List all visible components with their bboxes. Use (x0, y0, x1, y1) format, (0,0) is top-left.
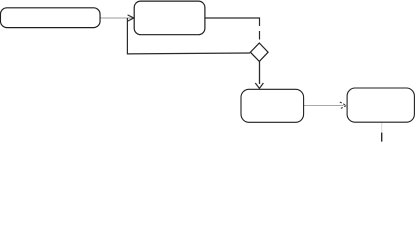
node N2 (rounded rectangle, top) (134, 1, 205, 35)
wire E5 shaft (node N3 to node N4, gray) (304, 105, 344, 107)
node N1 (rounded start node, left stadium) (0, 8, 100, 28)
wire E3 vertical dash (dashed drop to diamond top) (259, 31, 261, 40)
wire E3 horizontal (node N2 right side to corner above diamond) (205, 18, 260, 26)
node D1 (decision diamond) (250, 43, 268, 61)
wire E4 shaft (diamond bottom to node N3, vertical) (259, 61, 261, 84)
arrowhead E5 (open V pointing right into node N4, sketchy) (340, 102, 347, 109)
arrowhead E1 (open V pointing right into node N2) (128, 15, 134, 21)
wire E2 branch (from junction under E1 down then right to diamond left vertex) (127, 18, 250, 54)
arrowhead E4 (open V pointing down into node N3) (255, 83, 263, 88)
wire E6 light segment (below node N4) (381, 123, 383, 132)
wire E1 shaft (node N1 to node N2, gray) (101, 17, 133, 19)
wire E6 dark dash (continues to bottom edge) (381, 133, 383, 142)
node N4 (rounded rectangle, bottom right) (347, 88, 414, 122)
node N3 (rounded rectangle, bottom left) (241, 89, 304, 122)
